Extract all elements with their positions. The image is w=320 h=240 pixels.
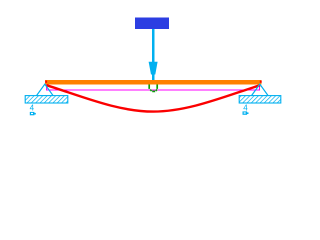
load arrow head bbox=[149, 62, 158, 75]
svg-text:4: 4 bbox=[243, 103, 248, 112]
red node marker left bbox=[45, 81, 47, 83]
right support triangle bbox=[251, 84, 268, 96]
left support ground block (hatched) bbox=[25, 96, 68, 103]
right support tiny flag glyph bbox=[243, 111, 249, 114]
beam (orange) bbox=[45, 80, 261, 85]
load arrow (cyan) stem bbox=[152, 29, 155, 80]
green dashed node circle at midspan bbox=[149, 84, 157, 91]
undeformed beam outline (magenta rectangle) bbox=[46, 84, 260, 91]
right support ground block (hatched) bbox=[239, 96, 281, 103]
red node marker right bbox=[260, 81, 262, 83]
deflection curve (red) bbox=[47, 85, 261, 111]
left support triangle bbox=[36, 84, 53, 96]
left support tiny flag glyph bbox=[30, 112, 36, 115]
svg-text:4: 4 bbox=[30, 103, 35, 112]
load (blue rectangle) bbox=[135, 17, 169, 29]
